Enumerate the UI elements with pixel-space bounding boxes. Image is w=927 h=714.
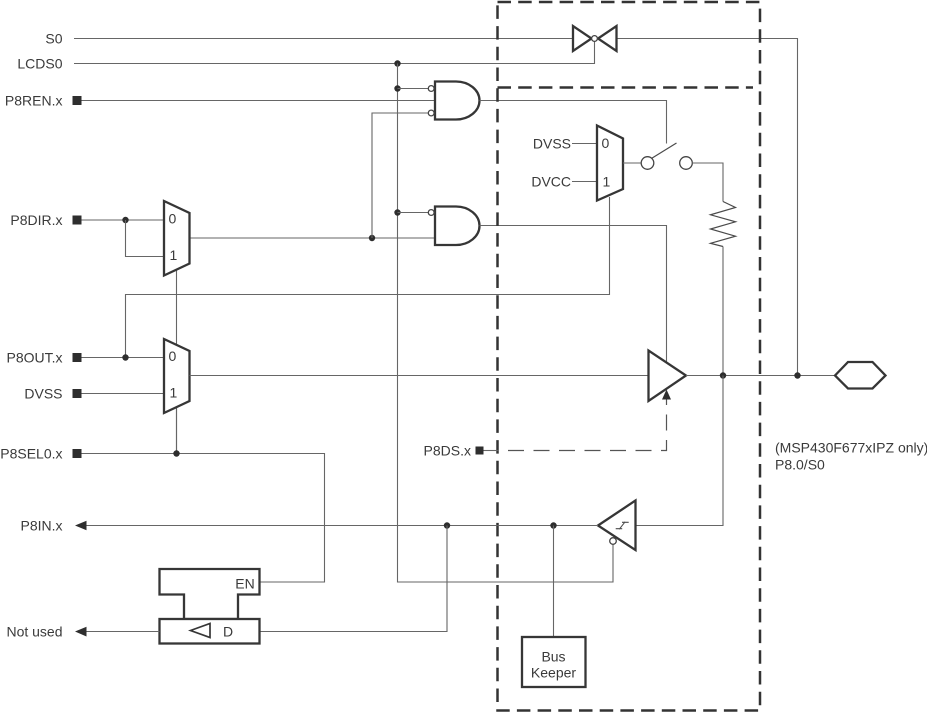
node P8SEL0 junction [173,450,179,456]
switch S1 left contact [641,157,654,170]
wire Not used output [87,631,160,633]
wire P8OUT to pull mux select [126,197,610,358]
AND gate G1 [435,82,480,120]
svg-text:DVSS: DVSS [24,386,62,402]
terminal P8DIR.x [73,216,82,225]
bubble G2 input 1 [428,210,434,216]
wire mux U1 output to AND2 [190,237,436,239]
svg-text:S0: S0 [45,31,62,47]
EN latch box [160,569,260,619]
wire resistor R1 to pad node [722,247,724,376]
wire S0 left segment [74,38,573,40]
output driver U4 [649,351,687,402]
svg-text:P8REN.x: P8REN.x [5,93,63,109]
wire pad node to Schmitt input [636,376,724,526]
D latch box [160,619,260,644]
wire DVSS stub [572,143,597,145]
wire S0 right segment to pad column [617,39,798,376]
wire LCDS0 vertical feed [398,64,614,583]
terminal P8SEL0.x [73,449,82,458]
inner dashed boundary [498,86,754,89]
svg-text:P8.0/S0: P8.0/S0 [775,457,825,473]
node P8OUT junction [122,354,128,360]
svg-text:DVCC: DVCC [531,174,571,190]
svg-text:P8DS.x: P8DS.x [424,443,471,459]
wire G1 output to switch control [480,101,667,144]
node pad junction resistor [720,372,726,378]
node Schmitt output junction latch [444,522,450,528]
mux U1 (P8DIR 0/1) [164,201,190,276]
svg-text:EN: EN [235,576,254,592]
Bus Keeper box [522,637,586,687]
svg-text:1: 1 [170,385,178,401]
svg-text:Bus: Bus [541,649,565,665]
wire bus keeper to junction [553,526,555,638]
svg-text:0: 0 [169,348,177,364]
AND gate G2 [435,207,480,246]
node P8DIR branch junction [122,217,128,223]
wire DVSS to mux U2 input 1 [82,393,165,395]
outer dashed box (I/O cell boundary) [498,2,761,711]
wire P8OUT.x to mux U2 input 0 [82,357,165,359]
arrowhead P8DS to driver [662,390,671,400]
node AND1 input1 junction [394,85,400,91]
mux U3 (pullup/pulldown select) [597,126,623,201]
transmission gate TG1 right triangle [598,26,617,51]
bubble U5 enable [610,538,617,545]
wire LCDS0 [74,41,595,64]
pad P8.0/S0 hexagon [835,362,886,389]
terminal DVSS [73,389,82,398]
terminal P8REN.x [73,96,82,105]
wire P8REN.x to AND1 [82,100,436,102]
wire DVCC stub [572,181,597,183]
arrowhead P8IN.x [75,521,87,531]
resistor R1 [711,202,736,247]
wire U3 output to switch [623,162,641,164]
svg-text:(MSP430F677xIPZ only): (MSP430F677xIPZ only) [775,440,927,456]
wire G2 output to driver enable [480,226,667,363]
svg-text:0: 0 [169,211,177,227]
wire P8DS.x stub [484,450,498,452]
svg-text:0: 0 [602,135,610,151]
switch S1 lever [652,143,677,158]
wire to AND2 input 1 [398,212,429,214]
clock triangle D latch [191,624,211,638]
svg-text:1: 1 [170,247,178,263]
wire driver output to pad [686,375,835,377]
mux U2 (P8OUT 0/1) [164,339,190,413]
wire P8DIR branch to mux U1 input 1 [126,220,165,257]
wire mux U2 output to driver [190,375,649,377]
wire P8IN.x from Schmitt [87,525,599,527]
wire to AND1 input 1 [398,88,429,90]
bubble TG1 center [592,36,598,42]
svg-text:1: 1 [603,174,611,190]
transmission gate TG1 left triangle [573,26,592,51]
bubble G1 input 3 [428,110,434,116]
arrowhead Not used [75,627,87,637]
wire P8DS.x dashed [498,399,667,451]
node Schmitt output junction buskeeper [550,522,556,528]
wire mux U1 select from P8SEL0 [176,270,178,454]
node pad junction S0 [794,372,800,378]
svg-text:P8IN.x: P8IN.x [20,518,62,534]
wire P8SEL0.x to EN latch [82,454,325,583]
wire junction to D latch input [260,526,448,632]
svg-text:DVSS: DVSS [533,136,571,152]
terminal P8OUT.x [73,353,82,362]
svg-text:Not used: Not used [6,624,62,640]
bubble G1 input 1 [428,86,434,92]
svg-text:P8OUT.x: P8OUT.x [6,350,62,366]
svg-text:P8DIR.x: P8DIR.x [10,212,62,228]
Schmitt trigger U5 [598,501,636,551]
hysteresis symbol [616,522,629,530]
wire mux U2 select segment below [176,407,178,454]
svg-text:P8SEL0.x: P8SEL0.x [0,446,62,462]
svg-text:D: D [223,624,233,640]
wire switch to resistor R1 [692,163,723,202]
node LCDS0 tap junction [394,60,400,66]
switch S1 right contact [680,157,693,170]
node mux U1 output junction [369,235,375,241]
wire P8DIR.x to mux U1 input 0 [82,219,165,221]
svg-text:Keeper: Keeper [531,665,576,681]
svg-text:LCDS0: LCDS0 [17,56,62,72]
terminal P8DS.x [476,447,484,455]
node AND2 input1 junction [394,209,400,215]
wire junction up to AND1 input 3 [372,113,428,238]
